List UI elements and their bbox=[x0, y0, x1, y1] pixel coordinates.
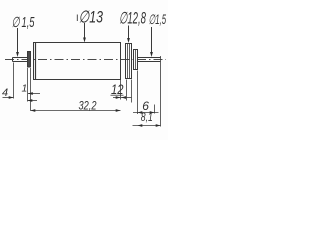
arrowhead leader d1.5 right bbox=[150, 52, 153, 57]
arrowhead dim 4 tail bbox=[28, 99, 33, 102]
stray tick left of d13 label bbox=[76, 15, 78, 22]
svg-text:6: 6 bbox=[142, 99, 149, 113]
arrowhead leader d12.8 bbox=[127, 38, 130, 43]
arrowhead dim 6 left bbox=[138, 111, 143, 114]
extension line shaft left end bbox=[13, 63, 15, 99]
right step bushing inner line bbox=[135, 50, 137, 70]
dimension line 8.1 bbox=[133, 125, 161, 127]
right bearing disc bbox=[126, 44, 132, 79]
dimension line 4 bbox=[3, 97, 14, 99]
leader line d1.5 left bbox=[17, 28, 19, 52]
dimension line 6 bbox=[133, 112, 159, 114]
extension line shaft right end bbox=[160, 56, 162, 127]
dimension value 12 underline bbox=[111, 94, 124, 96]
arrowhead dim 32.2 right bbox=[116, 109, 121, 112]
svg-text:∅13: ∅13 bbox=[79, 7, 104, 26]
dimension line 1 bbox=[28, 93, 40, 95]
dimension line 12 left tail bbox=[113, 97, 121, 99]
right bearing disc hatch bbox=[128, 44, 130, 79]
leader line d1.5 right bbox=[151, 27, 153, 53]
arrowhead leader d13 bbox=[83, 38, 86, 43]
svg-text:4: 4 bbox=[2, 87, 8, 99]
svg-text:12: 12 bbox=[111, 81, 124, 97]
arrowhead dim 12 left bbox=[116, 96, 121, 99]
dimension line 32.2 bbox=[31, 110, 121, 112]
extension line washer left face bbox=[27, 68, 29, 102]
svg-text:8,1: 8,1 bbox=[141, 112, 153, 124]
arrowhead dim 8.1 right bbox=[156, 124, 161, 127]
left journal shaft bbox=[13, 58, 28, 62]
leader line d13 bbox=[84, 23, 86, 39]
arrowhead dim 6 right bbox=[150, 111, 155, 114]
extension line roller right face bbox=[120, 80, 122, 100]
svg-text:∅ 1,5: ∅ 1,5 bbox=[12, 15, 36, 31]
left collar washer bbox=[28, 52, 31, 68]
extension line stub mid bbox=[154, 105, 156, 114]
extension line washer right face bbox=[30, 68, 32, 111]
svg-text:32,2: 32,2 bbox=[79, 101, 97, 113]
svg-text:∅12,8: ∅12,8 bbox=[119, 10, 146, 28]
extension line step right face bbox=[137, 71, 139, 115]
dimension line 12 bbox=[121, 97, 132, 99]
right journal shaft bbox=[138, 58, 161, 62]
leader line d12.8 bbox=[128, 26, 130, 40]
right step bushing bbox=[134, 50, 138, 70]
arrowhead dim 4 bbox=[9, 96, 14, 99]
extension line disc left face bbox=[126, 80, 128, 101]
roller left face inner line bbox=[35, 43, 37, 80]
arrowhead dim 1 bbox=[28, 92, 33, 95]
roller body outline bbox=[34, 43, 121, 80]
arrowhead dim 12 right bbox=[121, 96, 126, 99]
arrowhead dim 32.2 left bbox=[31, 109, 36, 112]
extension line disc right face bbox=[131, 80, 133, 103]
arrowhead leader d1.5 left bbox=[16, 52, 19, 57]
arrowhead dim 8.1 left bbox=[138, 124, 143, 127]
dimension line 4 right tail bbox=[28, 100, 38, 102]
svg-text:1: 1 bbox=[22, 84, 28, 95]
svg-text:∅1,5: ∅1,5 bbox=[149, 12, 167, 27]
centerline bbox=[5, 59, 166, 61]
